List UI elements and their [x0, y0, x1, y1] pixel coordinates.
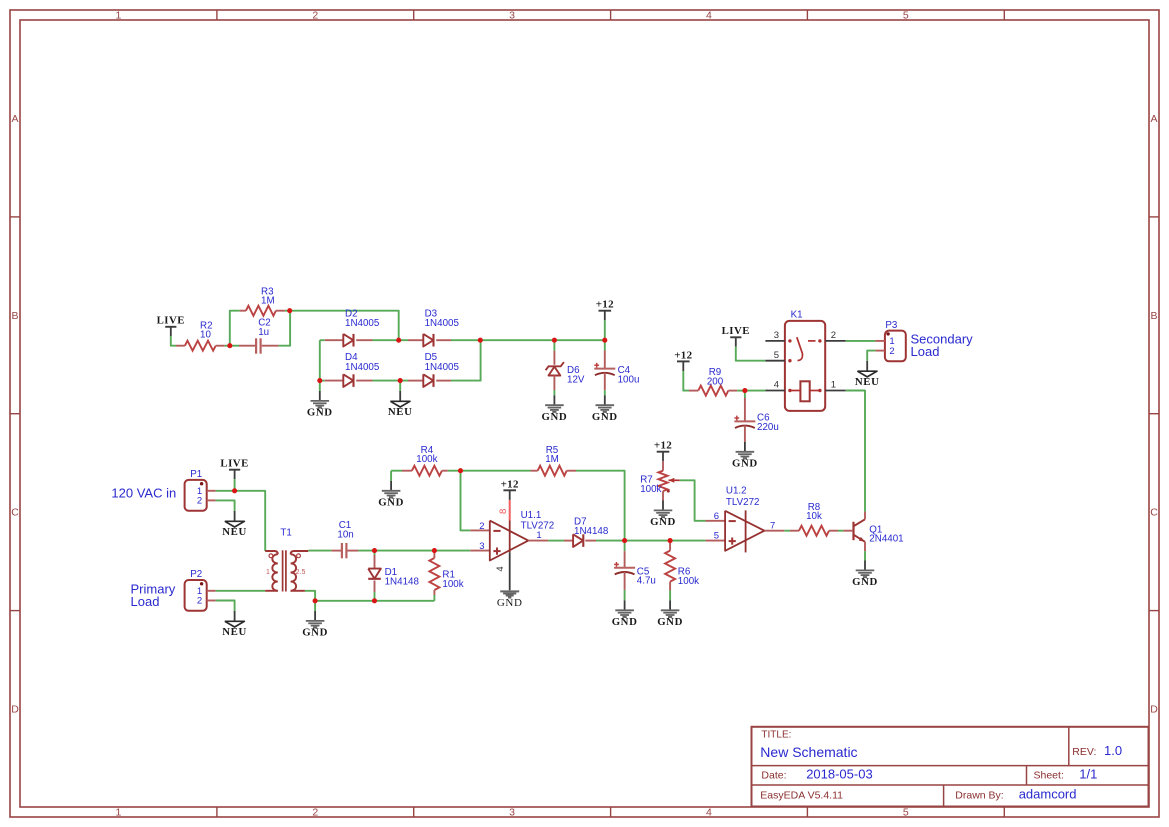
- svg-text:1: 1: [266, 569, 270, 576]
- svg-text:GND: GND: [307, 407, 333, 419]
- svg-text:GND: GND: [302, 627, 328, 639]
- svg-text:3: 3: [509, 10, 515, 22]
- svg-text:10: 10: [200, 330, 211, 341]
- svg-text:1/1: 1/1: [1079, 767, 1097, 782]
- svg-text:+12: +12: [674, 349, 692, 361]
- svg-text:K1: K1: [791, 309, 803, 320]
- svg-text:4: 4: [774, 380, 779, 391]
- svg-text:Load: Load: [131, 594, 160, 609]
- svg-text:1: 1: [115, 10, 121, 22]
- svg-text:GND: GND: [650, 516, 676, 528]
- svg-text:1M: 1M: [261, 295, 275, 306]
- svg-text:1N4005: 1N4005: [425, 362, 460, 373]
- svg-text:A: A: [11, 113, 18, 125]
- svg-text:Drawn By:: Drawn By:: [955, 789, 1003, 801]
- svg-text:C: C: [1150, 507, 1158, 519]
- svg-text:100k: 100k: [416, 454, 437, 465]
- svg-text:220u: 220u: [757, 422, 779, 433]
- svg-text:NEU: NEU: [855, 376, 880, 388]
- svg-text:B: B: [11, 310, 18, 322]
- svg-text:3: 3: [774, 330, 779, 341]
- svg-text:P1: P1: [190, 469, 202, 480]
- svg-text:GND: GND: [612, 616, 638, 628]
- svg-text:GND: GND: [592, 411, 618, 423]
- svg-text:10n: 10n: [337, 529, 353, 540]
- svg-text:4.7u: 4.7u: [637, 576, 656, 587]
- svg-text:120 VAC in: 120 VAC in: [111, 486, 176, 501]
- svg-text:Date:: Date:: [761, 770, 786, 782]
- svg-text:1: 1: [831, 380, 836, 391]
- svg-text:adamcord: adamcord: [1019, 786, 1077, 801]
- svg-text:P2: P2: [190, 569, 202, 580]
- svg-text:3: 3: [479, 541, 484, 552]
- svg-text:1: 1: [536, 530, 541, 541]
- svg-text:1N4005: 1N4005: [345, 362, 380, 373]
- svg-text:5: 5: [903, 807, 909, 819]
- svg-text:5: 5: [774, 350, 779, 361]
- svg-text:5: 5: [714, 531, 719, 542]
- svg-text:200: 200: [707, 376, 724, 387]
- svg-text:12V: 12V: [567, 374, 585, 385]
- svg-text:100u: 100u: [618, 374, 640, 385]
- svg-text:New Schematic: New Schematic: [760, 744, 857, 760]
- svg-text:TITLE:: TITLE:: [761, 729, 791, 740]
- svg-text:1u: 1u: [258, 327, 269, 338]
- svg-text:LIVE: LIVE: [722, 325, 750, 337]
- svg-text:2: 2: [831, 330, 836, 341]
- svg-text:B: B: [1150, 310, 1157, 322]
- svg-text:D: D: [11, 704, 19, 716]
- svg-text:A: A: [1150, 113, 1157, 125]
- svg-text:Load: Load: [911, 344, 940, 359]
- svg-text:3: 3: [509, 807, 515, 819]
- svg-text:7: 7: [770, 520, 775, 531]
- svg-text:2N4401: 2N4401: [869, 534, 903, 545]
- svg-text:T1: T1: [280, 527, 291, 538]
- svg-text:100k: 100k: [442, 579, 463, 590]
- svg-text:GND: GND: [732, 457, 758, 469]
- svg-text:100k: 100k: [678, 576, 699, 587]
- svg-text:NEU: NEU: [388, 406, 413, 418]
- svg-text:GND: GND: [378, 496, 404, 508]
- svg-text:EasyEDA V5.4.11: EasyEDA V5.4.11: [760, 789, 843, 801]
- svg-text:+12: +12: [654, 440, 672, 452]
- svg-text:100k: 100k: [640, 484, 661, 495]
- svg-text:4: 4: [495, 566, 506, 571]
- svg-text:8: 8: [498, 509, 509, 514]
- svg-text:LIVE: LIVE: [157, 314, 185, 326]
- svg-text:4: 4: [706, 807, 712, 819]
- svg-text:+12: +12: [501, 478, 519, 490]
- svg-text:Sheet:: Sheet:: [1034, 770, 1064, 782]
- svg-text:NEU: NEU: [222, 626, 247, 638]
- svg-text:P3: P3: [885, 320, 898, 331]
- svg-text:GND: GND: [657, 616, 683, 628]
- svg-text:+12: +12: [596, 299, 614, 311]
- svg-text:2: 2: [197, 596, 202, 607]
- svg-text:GND: GND: [542, 411, 568, 423]
- svg-text:2: 2: [479, 521, 484, 532]
- svg-text:LIVE: LIVE: [220, 457, 248, 469]
- svg-text:1N4148: 1N4148: [385, 577, 420, 588]
- svg-text:1M: 1M: [545, 454, 559, 465]
- svg-text:1N4148: 1N4148: [574, 526, 609, 537]
- svg-text:REV:: REV:: [1072, 746, 1096, 758]
- svg-text:1N4005: 1N4005: [345, 318, 380, 329]
- svg-text:2: 2: [197, 496, 202, 507]
- svg-text:TLV272: TLV272: [726, 497, 760, 508]
- svg-text:GND: GND: [497, 597, 523, 609]
- svg-text:C: C: [11, 507, 19, 519]
- svg-text:NEU: NEU: [222, 526, 247, 538]
- svg-text:5: 5: [903, 10, 909, 22]
- svg-text:2.5: 2.5: [296, 569, 306, 576]
- svg-text:6: 6: [714, 511, 719, 522]
- svg-text:1N4005: 1N4005: [425, 318, 460, 329]
- svg-text:D: D: [1150, 704, 1158, 716]
- svg-text:10k: 10k: [806, 511, 822, 522]
- svg-text:2: 2: [312, 807, 318, 819]
- svg-text:1.0: 1.0: [1104, 743, 1122, 758]
- svg-text:2: 2: [889, 346, 894, 357]
- svg-text:2018-05-03: 2018-05-03: [806, 767, 873, 782]
- svg-text:U1.2: U1.2: [726, 486, 747, 497]
- svg-text:GND: GND: [852, 576, 878, 588]
- svg-text:1: 1: [115, 807, 121, 819]
- svg-text:4: 4: [706, 10, 712, 22]
- svg-text:2: 2: [312, 10, 318, 22]
